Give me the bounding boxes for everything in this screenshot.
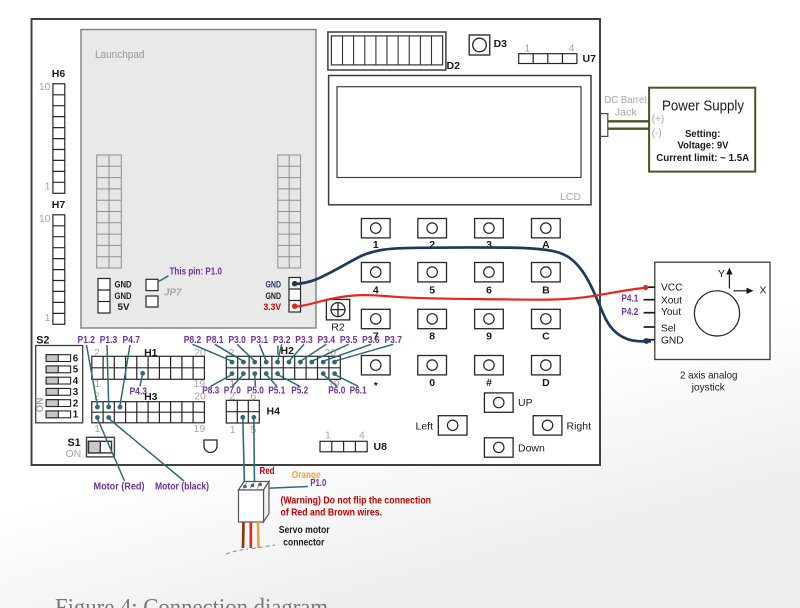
power wire (+) [608,120,649,122]
label P8.1 [206,335,224,346]
svg-text:3: 3 [486,239,492,251]
svg-text:D3: D3 [494,38,508,50]
svg-text:This pin: P1.0: This pin: P1.0 [170,266,223,277]
keypad button 4 [361,263,390,297]
label P5.2 [291,385,308,396]
button Left [415,416,467,435]
label P3.6 [362,335,380,346]
svg-text:C: C [542,331,550,343]
H2 bottom-row pin taps [211,371,358,386]
svg-text:P4.2: P4.2 [621,307,638,318]
label servo motor connector [279,524,330,548]
H1 pin P4.3 tap [129,371,147,398]
svg-text:H4: H4 [267,406,281,418]
svg-text:6: 6 [73,353,79,364]
svg-text:Launchpad: Launchpad [95,49,145,61]
label Motor (black) [155,481,209,493]
servo motor connector [239,482,270,523]
keypad button 6 [475,263,504,297]
svg-text:1: 1 [230,424,236,436]
H2 label [278,345,294,357]
svg-text:5: 5 [73,365,79,376]
svg-text:1: 1 [325,430,331,442]
launchpad GND/GND/5V pins [98,279,132,314]
keypad button 2 [418,219,447,252]
svg-text:3.3V: 3.3V [264,302,282,313]
svg-text:of Red and Brown wires.: of Red and Brown wires. [281,507,383,519]
svg-text:2: 2 [429,239,435,251]
svg-text:(+): (+) [652,114,665,125]
svg-text:#: # [486,377,492,389]
svg-text:8: 8 [429,331,435,343]
svg-text:P3.5: P3.5 [340,335,358,346]
svg-text:P1.3: P1.3 [100,335,118,346]
label Red [260,466,275,477]
GND wire (blue) [292,247,651,343]
svg-text:P6.1: P6.1 [350,385,367,396]
header H6 [39,68,66,193]
label This pin: P1.0 [158,266,223,282]
svg-text:6: 6 [486,285,492,297]
svg-text:4: 4 [73,376,79,387]
keypad button * [361,356,390,392]
DIP switch S2 [35,335,83,423]
H3 motor wire taps [95,415,184,481]
DC barrel jack [601,94,647,136]
potentiometer R2 [326,299,349,333]
power wire (-) [608,127,649,129]
svg-text:GND: GND [115,279,132,290]
svg-text:(Warning) Do not flip the conn: (Warning) Do not flip the connection [281,494,432,506]
label P3.0 [228,335,246,346]
keypad button 5 [418,263,447,297]
svg-text:ON: ON [65,448,81,460]
svg-text:JP7: JP7 [164,288,182,299]
svg-text:joystick: joystick [691,382,726,394]
label P6.0 [328,385,345,396]
svg-text:P8.1: P8.1 [206,335,224,346]
svg-text:2 axis analog: 2 axis analog [680,370,738,382]
label P8.2 [184,335,202,346]
servo wire brown [242,522,245,548]
3.3V wire (red) [292,285,648,309]
svg-text:19: 19 [194,423,206,435]
svg-text:S2: S2 [36,335,49,347]
svg-text:Left: Left [415,420,433,432]
label P8.3 [202,385,219,396]
svg-text:Jack: Jack [615,107,638,119]
svg-text:0: 0 [429,377,435,389]
svg-text:Y: Y [718,268,725,280]
svg-text:P5.1: P5.1 [268,385,285,396]
keypad button 3 [475,219,504,252]
keypad button 7 [361,309,390,342]
svg-text:1: 1 [373,239,379,251]
svg-text:10: 10 [39,81,51,93]
svg-text:Setting:: Setting: [685,128,721,140]
keypad button A [532,219,561,252]
svg-text:1: 1 [45,181,51,193]
svg-text:P3.4: P3.4 [318,335,336,346]
jumper JP7 [146,279,182,307]
LED bar D2 [328,32,460,72]
svg-text:1: 1 [95,378,101,390]
svg-text:Yout: Yout [661,307,681,318]
svg-text:9: 9 [486,331,492,343]
launchpad right pin grid [278,155,301,268]
LCD module [329,76,591,205]
H3 pin taps P1.2 P1.3 P4.7 [78,335,141,410]
svg-text:D: D [542,377,550,389]
keypad button D [532,356,561,389]
svg-text:P8.2: P8.2 [184,335,202,346]
svg-text:(-): (-) [652,128,662,139]
launchpad GND/GND/3.3V pins [264,278,301,314]
axis arrows [718,268,767,297]
buzzer [204,440,217,453]
svg-text:Voltage: 9V: Voltage: 9V [678,140,729,152]
label P4.2 [621,307,638,318]
svg-text:Motor (black): Motor (black) [155,481,209,493]
keypad button 9 [475,309,504,342]
svg-text:Right: Right [567,420,592,432]
header H2 [226,347,340,390]
wire tear marks [226,545,275,554]
header U8 [320,430,387,453]
servo wire orange [257,522,260,548]
svg-text:U8: U8 [374,441,388,453]
label Motor (Red) [94,481,145,493]
header H7 [39,199,66,324]
svg-text:P3.0: P3.0 [228,335,246,346]
svg-text:Motor (Red): Motor (Red) [94,481,145,493]
label P4.1 [621,293,638,304]
label P6.1 [350,385,367,396]
svg-text:2: 2 [73,398,79,409]
servo signal wires [240,415,308,489]
svg-text:LCD: LCD [560,191,581,203]
svg-text:P6.0: P6.0 [328,385,345,396]
svg-text:P3.6: P3.6 [362,335,380,346]
svg-text:VCC: VCC [661,282,683,293]
svg-text:P5.2: P5.2 [291,385,308,396]
H2 top-row pin taps [193,344,394,364]
joystick pins [644,282,684,346]
switch S1 [65,437,114,460]
svg-text:Servo motor: Servo motor [279,524,330,536]
svg-text:B: B [542,285,550,297]
svg-text:P4.1: P4.1 [621,293,638,304]
svg-text:P8.3: P8.3 [202,385,219,396]
svg-text:Down: Down [518,442,545,454]
svg-text:3: 3 [73,387,79,398]
svg-text:5: 5 [429,285,435,297]
svg-text:P3.7: P3.7 [384,335,402,346]
label P3.3 [295,335,313,346]
keypad button 8 [418,309,447,342]
svg-text:P3.2: P3.2 [273,335,291,346]
svg-text:H6: H6 [52,68,66,80]
joystick module [655,262,770,359]
label P3.1 [251,335,269,346]
keypad button 0 [418,356,447,389]
header H1 [92,347,206,390]
header H4 [226,391,280,436]
keypad button 1 [361,219,390,252]
label P5.1 [268,385,285,396]
svg-text:Power Supply: Power Supply [662,97,744,114]
keypad button B [532,263,561,297]
label P3.2 [273,335,291,346]
header H3 [92,391,206,435]
svg-text:1: 1 [73,410,79,421]
svg-text:H7: H7 [52,199,66,211]
label P3.4 [318,335,336,346]
svg-text:2: 2 [229,391,235,403]
svg-text:P4.7: P4.7 [123,335,141,346]
svg-text:Current limit: ~ 1.5A: Current limit: ~ 1.5A [656,152,749,164]
button Down [484,438,545,457]
svg-text:GND: GND [266,291,282,302]
svg-text:4: 4 [569,43,575,55]
svg-text:H2: H2 [281,345,295,357]
svg-text:10: 10 [39,213,51,225]
caption Figure 4 [55,595,328,608]
svg-text:Figure 4: Connection diagram: Figure 4: Connection diagram [55,595,328,608]
label 2 axis analog joystick [680,370,738,394]
LED D3 [469,35,507,55]
label P3.7 [384,335,402,346]
Launchpad module [81,30,316,329]
power supply box [649,88,755,172]
svg-text:ON: ON [35,398,46,413]
svg-text:Xout: Xout [661,296,682,307]
label P7.0 [224,385,241,396]
svg-text:2: 2 [94,347,100,359]
board outline [32,19,601,465]
svg-text:S1: S1 [67,437,80,449]
svg-text:H3: H3 [144,391,158,403]
servo wire red [250,522,253,548]
svg-text:Red: Red [260,466,275,477]
svg-text:P1.0: P1.0 [310,478,326,489]
svg-text:X: X [760,285,767,297]
label P3.5 [340,335,358,346]
svg-text:P1.2: P1.2 [78,335,96,346]
button Right [533,416,591,435]
svg-text:GND: GND [115,291,132,302]
label P1.0 [310,478,326,489]
svg-text:D2: D2 [447,60,461,72]
svg-text:GND: GND [661,335,684,346]
svg-text:Sel: Sel [661,323,676,334]
label P5.0 [247,385,264,396]
svg-text:connector: connector [283,536,324,548]
svg-text:1: 1 [524,43,530,55]
button UP [484,393,532,412]
keypad button # [475,356,504,389]
svg-text:1: 1 [45,312,51,324]
svg-text:GND: GND [266,279,282,290]
warning note [281,494,432,518]
svg-text:4: 4 [359,430,365,442]
svg-text:R2: R2 [331,322,345,334]
svg-text:U7: U7 [583,53,597,65]
svg-text:P3.3: P3.3 [295,335,313,346]
header U7 [519,43,596,66]
svg-text:DC Barrel: DC Barrel [604,94,646,106]
svg-text:5V: 5V [118,302,131,313]
svg-text:6: 6 [251,391,257,403]
svg-text:P3.1: P3.1 [251,335,269,346]
svg-text:UP: UP [518,397,533,409]
label Orange [292,470,321,481]
launchpad left pin grid [97,155,122,268]
keypad button C [532,309,561,342]
